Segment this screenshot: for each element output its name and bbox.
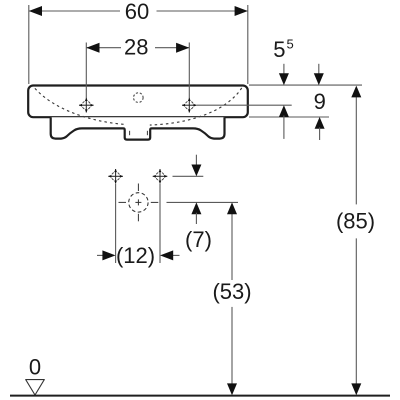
leader from right tap hole to 5.5 dimension (197, 104, 292, 106)
fixing hole symbol left (108, 169, 123, 184)
basin top reference line extended right (249, 84, 362, 86)
(12) extension line right (159, 184, 161, 263)
svg-text:(7): (7) (185, 227, 212, 252)
mask: curve hidden over drain box (126, 119, 150, 127)
(12) right arrow (172, 254, 180, 256)
datum triangle (26, 380, 45, 395)
dimension 9 down arrow (318, 64, 320, 75)
(53) down arrow (227, 383, 237, 395)
basin hidden bowl curve (dashed) (35, 88, 242, 126)
svg-text:9: 9 (314, 89, 326, 114)
svg-text:0: 0 (29, 355, 41, 380)
outlet center reference line (167, 201, 239, 203)
basin pedestal / apron outline (51, 117, 225, 139)
dimension (85) down arrow (351, 383, 361, 395)
dimension (85) vertical line (355, 95, 357, 204)
(12) extension line left (115, 184, 117, 263)
svg-text:(12): (12) (116, 243, 155, 268)
tap hole symbol left (79, 98, 94, 113)
dimension (85) up arrow (351, 86, 361, 98)
dimension 5.5 down arrow (283, 64, 285, 75)
overflow hole (dashed circle) (134, 93, 144, 103)
fixing hole symbol right (153, 169, 168, 184)
(7) down arrow (195, 155, 197, 166)
svg-text:28: 28 (124, 35, 148, 60)
extension line left of 60 (28, 5, 30, 84)
extension line right of 28 (188, 43, 190, 99)
svg-text:60: 60 (125, 0, 149, 24)
dimension 5.5 up arrow (279, 105, 289, 117)
(7) top reference line (173, 175, 204, 177)
(53) up arrow (227, 202, 237, 214)
outlet centerlines (119, 184, 159, 222)
basin body outline (28, 86, 248, 118)
floor line (10, 395, 390, 397)
tap hole symbol right (182, 98, 197, 113)
svg-text:(85): (85) (336, 208, 375, 233)
(12) left arrow (97, 254, 104, 256)
extension line right of 60 (247, 5, 249, 84)
extension line left of 28 (85, 43, 87, 99)
drain box hidden lines (129, 131, 131, 135)
dimension 28 line (86, 47, 189, 49)
dimension 60 line (29, 10, 248, 12)
(7) up arrow (191, 202, 201, 214)
svg-text:(53): (53) (212, 279, 251, 304)
dimension 9 up arrow (315, 117, 325, 129)
outlet circle (dashed) (129, 193, 148, 212)
basin bottom reference line extended right (249, 116, 329, 118)
dimension 28 arrows (86, 43, 99, 53)
dimension (53) vertical line (231, 212, 233, 280)
dimension 60 arrows (29, 6, 42, 16)
